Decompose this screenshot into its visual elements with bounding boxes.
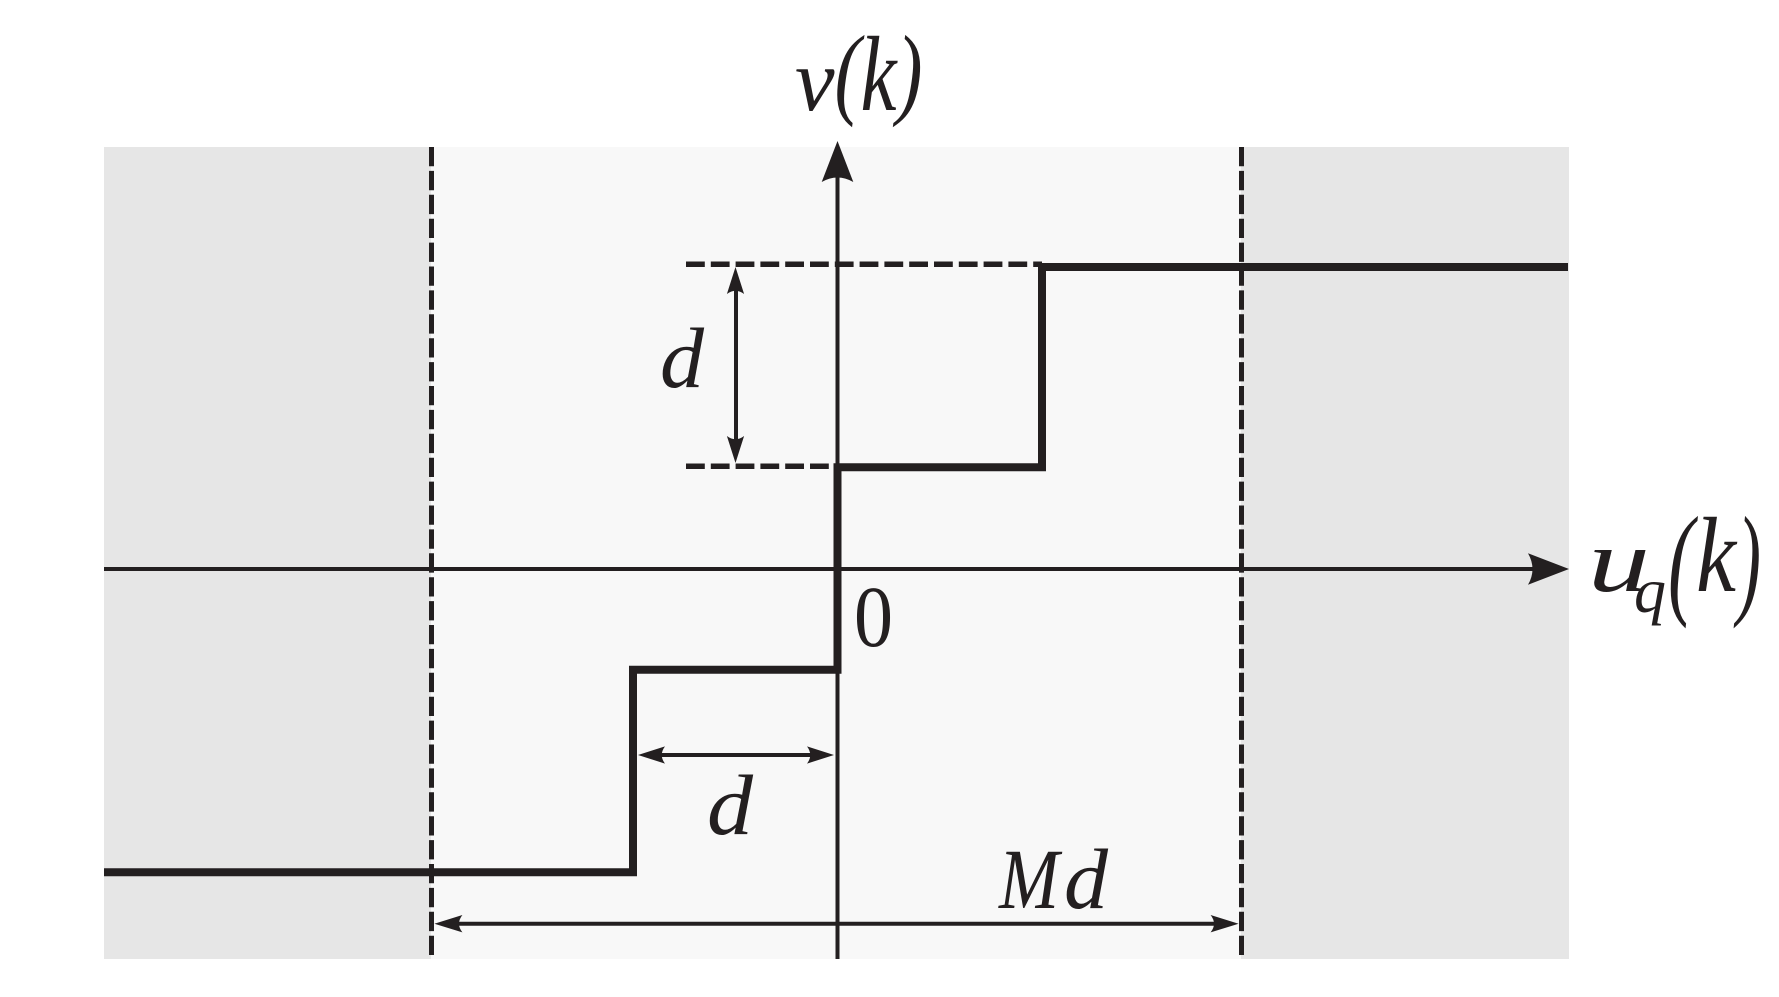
- svg-text:0: 0: [854, 568, 893, 665]
- staircase quantizer characteristic: [104, 267, 1568, 872]
- dashed level line at v=+3d/2: [686, 261, 1042, 267]
- svg-text:Md: Md: [997, 831, 1108, 927]
- x-axis line: [104, 567, 1535, 571]
- left saturation region (gray): [104, 147, 431, 959]
- vertical dimension arrow d (between levels): [727, 267, 744, 463]
- y-axis arrowhead: [822, 141, 854, 182]
- right saturation region (gray): [1241, 147, 1569, 959]
- horizontal dimension arrow d (step width): [638, 746, 834, 763]
- x-axis arrowhead: [1528, 553, 1569, 585]
- dashed boundary line right (u=+Md/2): [1239, 147, 1244, 959]
- horizontal dimension arrow Md (full range): [434, 915, 1238, 932]
- svg-text:uq(k): uq(k): [1588, 492, 1761, 629]
- dashed boundary line left (u=-Md/2): [429, 147, 434, 959]
- svg-text:v(k): v(k): [795, 16, 923, 135]
- svg-text:d: d: [707, 759, 753, 853]
- svg-text:d: d: [660, 312, 704, 406]
- y-axis line: [836, 175, 840, 959]
- dashed level line at v=+d/2: [686, 463, 837, 469]
- inner light band (linear quantizer range): [104, 147, 1569, 959]
